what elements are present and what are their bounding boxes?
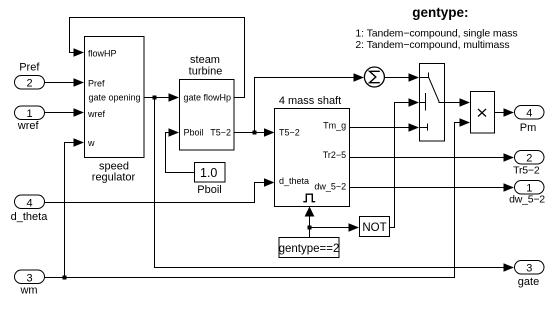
svg-text:T5−2: T5−2 [279,127,300,137]
wire Tr2-5 to port 2 [350,157,506,159]
svg-text:Tr2−5: Tr2−5 [323,150,346,160]
svg-text:1.0: 1.0 [200,166,217,180]
arrowhead switch in1 [409,73,420,81]
svg-text:2: 2 [26,77,32,89]
wire feedback flowHp to flowHP [70,18,245,98]
svg-text:gate: gate [518,276,539,288]
arrowhead NOT in [349,223,360,231]
wire wm to product [45,123,462,278]
input port 4 d_theta [11,195,49,223]
wire Pboil constant to steam turbine [166,133,195,173]
wire Tm_g to switch in3 [350,127,411,129]
svg-text:NOT: NOT [362,222,386,234]
svg-text:Pref: Pref [88,78,105,88]
svg-text:wref: wref [87,109,106,119]
trigger symbol on 4 mass shaft [303,194,315,202]
svg-text:wm: wm [19,284,37,296]
block gentype==2 [279,238,340,258]
wire sum to switch in1 [385,77,411,79]
wire Pref [45,82,76,84]
svg-text:gentype:: gentype: [412,5,468,20]
block NOT [360,217,390,237]
svg-text:4 mass shaft: 4 mass shaft [279,95,341,107]
switch block U5 [420,64,445,142]
svg-text:Pref: Pref [19,61,40,73]
arrowhead w [74,138,85,146]
arrowhead wref [74,108,85,116]
svg-text:2: 2 [526,152,532,164]
arrowhead Pm [504,108,515,116]
input port 1 wref [15,106,45,132]
arrowhead product in1 [460,98,471,106]
arrowhead d_theta [264,178,275,186]
input port 3 wm [15,270,45,296]
wire wref [45,112,76,114]
svg-text:T5−2: T5−2 [210,127,231,137]
svg-text:4: 4 [26,197,32,209]
arrowhead gate port [504,263,515,271]
svg-text:Pm: Pm [520,122,537,134]
svg-text:gate: gate [184,92,202,102]
arrowhead Pboil [169,128,180,136]
wire gentype branch to NOT [310,227,351,229]
svg-text:w: w [87,138,95,148]
svg-text:d_theta: d_theta [279,176,309,186]
output port 2 Tr5-2 [513,151,544,177]
output port 1 dw_5-2 [509,181,545,206]
svg-text:1: Tandem−compound, single mas: 1: Tandem−compound, single mass [355,28,517,40]
arrowhead Pref [74,78,85,86]
product block U6 [471,92,495,134]
wire gentype to trigger [309,216,311,238]
arrowhead switch in2 [409,98,420,106]
arrowhead flowHP [74,48,85,56]
arrowhead T5-2 [264,128,275,136]
output port 4 Pm [515,106,545,135]
svg-text:flowHp: flowHp [203,92,231,102]
arrowhead gate [169,93,180,101]
arrowhead dw_5-2 [504,183,515,191]
junction dot gate opening [153,96,157,100]
svg-text:flowHP: flowHP [88,48,117,58]
svg-text:4: 4 [526,107,532,119]
svg-text:Pboil: Pboil [184,127,204,137]
svg-text:gate opening: gate opening [88,93,140,103]
arrowhead into sum [354,73,365,81]
output port 3 gate [515,261,545,288]
wire gate opening to steam turbine [145,97,171,99]
junction dot T5-2 [253,131,257,135]
svg-text:steam: steam [190,54,220,66]
wire switch to product [445,102,462,104]
svg-text:Pboil: Pboil [197,184,221,196]
block U3 4 mass shaft [275,95,350,207]
svg-text:dw_5−2: dw_5−2 [314,182,346,192]
svg-text:Tr5−2: Tr5−2 [513,164,540,176]
junction dot wm-w [63,276,67,280]
arrowhead product in2 [460,118,471,126]
arrowhead switch in3 [409,123,420,131]
wire d_theta to 4 mass shaft [45,183,267,203]
svg-text:3: 3 [26,272,32,284]
block U2 steam turbine [180,54,235,150]
svg-text:regulator: regulator [92,171,136,183]
wire NOT to switch in2 [390,103,411,228]
wire gate opening down to gate port [155,98,506,268]
wire T5-2 branch to sum [255,78,356,133]
wire product to port Pm [495,112,506,114]
svg-text:1: 1 [26,108,32,120]
arrowhead trigger up [305,207,315,217]
wire w from wm junction [65,143,76,278]
svg-text:dw_5−2: dw_5−2 [509,193,545,205]
svg-text:gentype==2: gentype==2 [279,243,340,255]
arrowhead Tr5-2 [504,153,515,161]
svg-text:wref: wref [17,120,40,132]
wire dw_5-2 to port 1 [350,187,506,189]
sum block U4 [364,67,384,87]
svg-text:turbine: turbine [189,66,223,78]
svg-text:d_theta: d_theta [11,211,49,223]
block U1 speed regulator [85,37,145,184]
wire T5-2 to 4 mass shaft [235,132,267,134]
svg-text:3: 3 [526,262,532,274]
constant block 1.0 Pboil [195,163,226,196]
annotation gentype legend [355,5,517,51]
svg-text:Tm_g: Tm_g [323,120,346,130]
junction dot gentype [308,226,312,230]
input port 2 Pref [15,61,45,89]
svg-text:2: Tandem−compound, multimass: 2: Tandem−compound, multimass [355,39,509,51]
